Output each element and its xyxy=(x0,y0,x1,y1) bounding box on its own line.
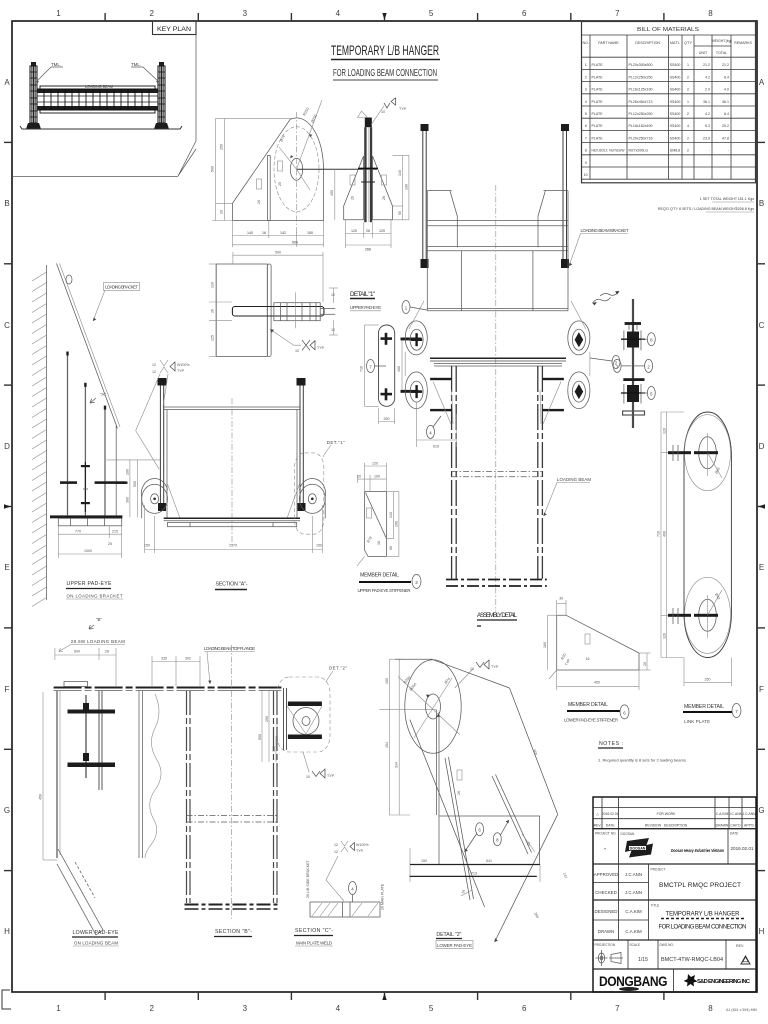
svg-text:26: 26 xyxy=(351,196,355,200)
svg-text:4: 4 xyxy=(336,1004,341,1013)
base line xyxy=(50,515,122,518)
DET.2 dashed box xyxy=(277,677,330,752)
svg-text:1000: 1000 xyxy=(84,549,92,553)
svg-text:DWG NO.: DWG NO. xyxy=(660,943,674,947)
svg-text:A: A xyxy=(4,78,10,87)
svg-text:36.1: 36.1 xyxy=(703,100,710,104)
svg-text:770: 770 xyxy=(75,530,81,534)
key plan loading beam truss xyxy=(37,86,158,113)
assembly: pad-eye shoulders xyxy=(405,301,590,376)
svg-text:MEMBER DETAIL: MEMBER DETAIL xyxy=(360,573,399,579)
zone ticks top/bottom xyxy=(105,13,664,1000)
dims 600 26 xyxy=(55,648,116,686)
svg-text:E: E xyxy=(4,563,9,572)
svg-text:716: 716 xyxy=(360,366,364,372)
lower pad-eye cross bars xyxy=(68,710,116,714)
svg-text:REMARKS: REMARKS xyxy=(734,41,752,45)
svg-text:SECTION "A"-: SECTION "A"- xyxy=(216,582,248,588)
svg-text:20: 20 xyxy=(357,475,361,479)
svg-text:120: 120 xyxy=(662,633,666,639)
svg-text:450: 450 xyxy=(594,681,600,685)
svg-text:TML.: TML. xyxy=(51,62,61,67)
member detail 3 top dims xyxy=(358,463,387,492)
link plate bolts xyxy=(668,451,691,454)
section A rods xyxy=(158,378,167,386)
dim 450 left xyxy=(42,692,44,860)
detail 1 link bar through slot xyxy=(232,307,324,317)
svg-text:25: 25 xyxy=(278,182,282,186)
svg-text:DOOSAN: DOOSAN xyxy=(621,832,636,836)
key plan label box xyxy=(153,21,197,35)
svg-text:Q'TY: Q'TY xyxy=(684,41,693,45)
detail 2 left dims xyxy=(379,659,436,815)
link plate bottom dim xyxy=(684,658,731,687)
svg-text:7: 7 xyxy=(585,136,587,140)
member detail 3 right dims xyxy=(386,492,399,557)
svg-text:DATE: DATE xyxy=(730,832,738,836)
assembly: dim 615 xyxy=(417,402,457,447)
svg-text:PL26x454x713: PL26x454x713 xyxy=(629,100,653,104)
svg-text:ASSEMBLY DETAIL: ASSEMBLY DETAIL xyxy=(477,612,518,619)
section A base xyxy=(164,517,300,519)
svg-text:10: 10 xyxy=(295,349,299,353)
svg-text:MEMBER DETAIL: MEMBER DETAIL xyxy=(568,702,608,708)
detail 1 bolt washer stack xyxy=(274,303,320,321)
zone letters right xyxy=(758,78,764,936)
svg-text:CHK'D: CHK'D xyxy=(730,824,741,828)
svg-text:1: 1 xyxy=(687,100,689,104)
upper pad-eye gusset plate detail xyxy=(233,118,324,221)
svg-text:NOTES :: NOTES : xyxy=(599,741,623,747)
dim 450 between views xyxy=(334,169,336,220)
gusset left dims xyxy=(212,118,294,220)
svg-text:DESCRIPTION: DESCRIPTION xyxy=(635,41,660,45)
svg-text:LOADING BEAM: LOADING BEAM xyxy=(557,477,591,482)
svg-text:500: 500 xyxy=(275,251,281,255)
gusset plate symbols xyxy=(278,161,283,171)
svg-text:26: 26 xyxy=(382,196,386,200)
svg-text:140: 140 xyxy=(398,170,402,176)
svg-text:M27x200LG: M27x200LG xyxy=(629,149,649,153)
svg-text:FOR LOADING BEAM CONNECTION: FOR LOADING BEAM CONNECTION xyxy=(659,925,747,931)
svg-text:4: 4 xyxy=(336,9,341,18)
detail 1 bolt tip xyxy=(320,307,335,309)
svg-text:ON LOADING BRACKET: ON LOADING BRACKET xyxy=(67,594,123,599)
svg-text:12: 12 xyxy=(152,370,156,374)
svg-text:450: 450 xyxy=(330,190,334,196)
svg-text:60: 60 xyxy=(389,546,393,550)
section arrow squiggle xyxy=(593,298,611,304)
section A left pad-eye xyxy=(142,484,168,513)
member detail 6 plate xyxy=(557,615,639,670)
svg-text:150: 150 xyxy=(316,544,322,548)
svg-text:PLATE: PLATE xyxy=(592,88,604,92)
zone numbers top xyxy=(56,9,713,18)
svg-text:28.6W LOADING BEAM: 28.6W LOADING BEAM xyxy=(71,639,125,644)
radius leaders xyxy=(279,100,322,190)
exploded pin: nut 1 xyxy=(627,332,639,348)
svg-text:21.2: 21.2 xyxy=(703,63,710,67)
svg-text:1208.8 Kgs: 1208.8 Kgs xyxy=(736,207,754,211)
section C plate xyxy=(310,902,380,917)
svg-text:120: 120 xyxy=(211,282,215,288)
svg-text:PLATE: PLATE xyxy=(592,63,604,67)
svg-text:UNIT: UNIT xyxy=(699,51,708,55)
zone numbers bottom xyxy=(56,1004,713,1013)
svg-text:PLATE: PLATE xyxy=(592,136,604,140)
svg-text:PLATE: PLATE xyxy=(592,112,604,116)
svg-text:26 L/B SIDE BRACKET: 26 L/B SIDE BRACKET xyxy=(306,859,310,898)
svg-text:UPPER PAD-EYE: UPPER PAD-EYE xyxy=(67,581,113,587)
assembly: hanger rods xyxy=(423,131,567,260)
svg-text:APPROVED: APPROVED xyxy=(594,872,618,877)
key plan TML labels xyxy=(36,62,159,83)
svg-text:SS400: SS400 xyxy=(670,63,681,67)
svg-text:8.4: 8.4 xyxy=(724,75,729,79)
svg-text:TOTAL: TOTAL xyxy=(716,51,727,55)
svg-text:PL20x300x500: PL20x300x500 xyxy=(629,63,653,67)
svg-text:36.1: 36.1 xyxy=(722,100,729,104)
key plan left tower xyxy=(26,62,41,129)
svg-text:E: E xyxy=(759,563,764,572)
svg-text:12: 12 xyxy=(334,850,338,854)
svg-text:150: 150 xyxy=(144,544,150,548)
assembly: lower-right pad-eye xyxy=(568,372,590,409)
svg-text:DET."1": DET."1" xyxy=(327,440,345,445)
svg-text:FOR LOADING BEAM CONNECTION: FOR LOADING BEAM CONNECTION xyxy=(333,68,437,79)
svg-text:PROJECT NO.: PROJECT NO. xyxy=(595,832,616,836)
svg-text:600: 600 xyxy=(74,650,80,654)
svg-text:26: 26 xyxy=(257,200,261,204)
gusset bottom dims xyxy=(233,221,324,248)
DET.2 dim stack xyxy=(262,691,276,762)
svg-text:WEIGHT(kg): WEIGHT(kg) xyxy=(711,39,732,43)
gusset centerlines xyxy=(296,112,298,236)
svg-text:290: 290 xyxy=(265,716,269,722)
svg-text:450: 450 xyxy=(39,794,43,800)
svg-text:REQ'D Q'TY 8 SETS / LOADING BE: REQ'D Q'TY 8 SETS / LOADING BEAM WEIGHT … xyxy=(658,207,739,211)
svg-text:16: 16 xyxy=(262,231,266,235)
svg-text:5: 5 xyxy=(429,1004,434,1013)
svg-text:335: 335 xyxy=(161,657,167,661)
svg-text:26 MAIN PLATE: 26 MAIN PLATE xyxy=(381,883,385,910)
svg-text:2: 2 xyxy=(687,88,689,92)
svg-text:PL16x125x190: PL16x125x190 xyxy=(629,88,653,92)
lower pad-eye verticals xyxy=(56,691,58,858)
svg-text:140: 140 xyxy=(389,512,393,518)
svg-text:SS400: SS400 xyxy=(670,136,681,140)
member detail 6 left dim xyxy=(547,615,549,670)
svg-text:8: 8 xyxy=(585,149,587,153)
svg-text:SM8.8: SM8.8 xyxy=(670,149,680,153)
gusset bolt circle (dashed) xyxy=(274,127,319,212)
svg-text:21.2: 21.2 xyxy=(722,63,729,67)
svg-text:8: 8 xyxy=(708,9,713,18)
svg-text:500: 500 xyxy=(258,734,262,740)
link plate elevation xyxy=(379,325,395,406)
assembly: rod nuts xyxy=(421,259,429,268)
svg-text:DRAWN: DRAWN xyxy=(716,824,729,828)
svg-text:10: 10 xyxy=(381,110,385,114)
detail 2 balloons xyxy=(476,823,484,836)
svg-text:C.A.KIM: C.A.KIM xyxy=(625,929,642,934)
svg-text:CHECKED: CHECKED xyxy=(595,890,616,895)
svg-text:4: 4 xyxy=(585,100,587,104)
svg-text:150: 150 xyxy=(307,231,313,235)
svg-text:25: 25 xyxy=(108,542,112,546)
svg-text:J.C.ANN: J.C.ANN xyxy=(742,812,756,816)
svg-text:716: 716 xyxy=(657,531,661,537)
svg-text:2016.02.01: 2016.02.01 xyxy=(731,846,754,851)
detail 1 left dims xyxy=(209,264,232,357)
svg-text:8.4: 8.4 xyxy=(724,112,729,116)
svg-text:2: 2 xyxy=(149,1004,154,1013)
svg-text:BMCTPL RMQC PROJECT: BMCTPL RMQC PROJECT xyxy=(659,882,741,889)
svg-text:A: A xyxy=(759,78,765,87)
hatched wall xyxy=(46,265,48,600)
svg-text:TML.: TML. xyxy=(131,62,141,67)
svg-text:140: 140 xyxy=(247,231,253,235)
svg-text:47.8: 47.8 xyxy=(722,136,729,140)
member detail 6 bottom dim xyxy=(557,670,639,690)
svg-text:SCALE: SCALE xyxy=(630,943,640,947)
svg-text:300: 300 xyxy=(125,497,129,503)
revision row xyxy=(594,812,756,828)
svg-text:DETAIL "2": DETAIL "2" xyxy=(436,932,461,938)
detail 1 weld leader xyxy=(270,329,301,345)
lower pad-eye gusset pair detail xyxy=(344,156,393,220)
BOM summary weights xyxy=(658,197,754,211)
svg-text:30: 30 xyxy=(559,597,563,601)
svg-text:1: 1 xyxy=(585,63,587,67)
svg-text:PLATE: PLATE xyxy=(592,100,604,104)
svg-text:250: 250 xyxy=(384,417,390,421)
svg-text:F: F xyxy=(759,685,764,694)
assembly: lower-left pad-eye xyxy=(405,372,427,409)
svg-text:B: B xyxy=(4,199,9,208)
svg-text:2370: 2370 xyxy=(229,544,237,548)
link plate dim 250 xyxy=(379,408,395,424)
section B bottom cap xyxy=(185,904,279,906)
svg-text:9: 9 xyxy=(585,161,587,165)
svg-text:C.A.KIM: C.A.KIM xyxy=(716,812,729,816)
key plan right tower xyxy=(154,62,169,129)
svg-text:LOADING BRACKET: LOADING BRACKET xyxy=(105,285,138,290)
svg-text:20: 20 xyxy=(220,210,224,214)
link plate bottom boss xyxy=(685,577,731,653)
svg-text:LOWER PAD-EYE: LOWER PAD-EYE xyxy=(73,930,120,936)
svg-text:F: F xyxy=(5,685,10,694)
svg-text:150: 150 xyxy=(385,678,389,684)
svg-text:2: 2 xyxy=(149,9,154,18)
svg-text:H: H xyxy=(4,927,10,936)
base plate xyxy=(58,518,121,526)
member detail 6 symbol xyxy=(585,634,590,644)
svg-text:150: 150 xyxy=(421,859,427,863)
svg-text:SS400: SS400 xyxy=(670,88,681,92)
svg-text:S&D ENGINEERING INC: S&D ENGINEERING INC xyxy=(697,979,751,985)
loading bracket diagonal xyxy=(57,264,118,429)
svg-text:1. Required quantity is 8 sets: 1. Required quantity is 8 sets for 2 loa… xyxy=(598,758,687,763)
detail 1 right micro dims xyxy=(329,288,338,335)
weld flag lower xyxy=(303,752,309,772)
link plate hole leaders xyxy=(708,453,723,478)
svg-text:120: 120 xyxy=(379,229,385,233)
svg-text:"B": "B" xyxy=(96,617,102,622)
svg-text:BILL OF MATERIALS: BILL OF MATERIALS xyxy=(637,27,700,33)
svg-text:26: 26 xyxy=(366,229,370,233)
svg-text:DONGBANG: DONGBANG xyxy=(599,974,667,989)
svg-text:50: 50 xyxy=(398,211,402,215)
svg-text:HEX.BOLT, NUT&S/W: HEX.BOLT, NUT&S/W xyxy=(592,149,626,153)
assembly: beam seat xyxy=(430,357,566,359)
svg-text:3: 3 xyxy=(585,88,587,92)
svg-text:TYP.: TYP. xyxy=(356,849,364,853)
svg-text:466: 466 xyxy=(662,531,666,537)
svg-text:J.C.ANN: J.C.ANN xyxy=(625,890,642,895)
svg-text:J.C.ANN: J.C.ANN xyxy=(729,812,743,816)
svg-text:4: 4 xyxy=(687,124,689,128)
svg-text:4.2: 4.2 xyxy=(705,75,710,79)
svg-text:SS400: SS400 xyxy=(670,75,681,79)
svg-text:12: 12 xyxy=(152,363,156,367)
svg-text:J.C.ANN: J.C.ANN xyxy=(625,872,642,877)
svg-text:7: 7 xyxy=(615,9,620,18)
svg-text:1 SET TOTAL WEIGHT :: 1 SET TOTAL WEIGHT : xyxy=(700,197,739,201)
svg-text:466: 466 xyxy=(397,366,401,372)
section A dims 200/500/300 xyxy=(106,460,160,517)
section C balloon 4 xyxy=(349,882,357,895)
exploded pin balloons xyxy=(647,333,655,346)
svg-text:25.2: 25.2 xyxy=(722,124,729,128)
upper pad-eye dims xyxy=(58,526,121,558)
svg-text:C: C xyxy=(759,321,765,330)
detail 2 slots xyxy=(445,757,532,900)
member detail 3 symbol xyxy=(367,508,372,518)
center bolt plates xyxy=(365,118,372,128)
upper pad-eye bracket bars xyxy=(68,353,106,516)
exploded pin: top washer xyxy=(625,322,641,325)
title block frame xyxy=(593,797,756,992)
svg-text:1/15: 1/15 xyxy=(638,957,648,963)
svg-text:W100%: W100% xyxy=(356,843,369,847)
svg-text:190: 190 xyxy=(395,521,399,527)
link plate dims xyxy=(661,412,684,658)
svg-text:6: 6 xyxy=(522,1004,527,1013)
svg-text:12: 12 xyxy=(331,328,335,332)
svg-text:PL16x162x490: PL16x162x490 xyxy=(629,124,653,128)
pair bottom dims xyxy=(345,220,391,248)
svg-text:MEMBER DETAIL: MEMBER DETAIL xyxy=(684,704,724,710)
svg-text:LOWER PAD-EYE: LOWER PAD-EYE xyxy=(437,943,472,948)
svg-text:3: 3 xyxy=(243,1004,248,1013)
svg-text:4.0: 4.0 xyxy=(724,88,729,92)
svg-text:MAIN PLATE WELD: MAIN PLATE WELD xyxy=(296,941,332,946)
svg-text:SECTION "C"-: SECTION "C"- xyxy=(295,928,333,934)
bracket cross ties xyxy=(95,481,126,484)
detail 2 bottom dims xyxy=(410,848,540,882)
exploded pin bolt: shaft xyxy=(632,299,634,428)
svg-text:120: 120 xyxy=(351,229,357,233)
assembly: loading beam sides xyxy=(452,366,543,579)
section B mid dashdot xyxy=(187,815,278,817)
key plan boundary xyxy=(12,35,196,177)
svg-text:120: 120 xyxy=(662,428,666,434)
svg-text:PL12x250x250: PL12x250x250 xyxy=(629,75,653,79)
svg-text:6: 6 xyxy=(522,9,527,18)
svg-text:PART NAME: PART NAME xyxy=(598,41,619,45)
top squiggle pointer xyxy=(600,292,619,296)
svg-text:160: 160 xyxy=(543,642,547,648)
bottom cut diagonals xyxy=(57,849,103,935)
svg-text:142: 142 xyxy=(280,231,286,235)
pair plate symbols xyxy=(350,175,355,185)
svg-text:26: 26 xyxy=(457,791,461,795)
lower pad-eye left cap plate xyxy=(64,682,88,687)
svg-text:541: 541 xyxy=(486,859,492,863)
svg-text:DET."2": DET."2" xyxy=(329,666,347,671)
svg-text:PROJECT: PROJECT xyxy=(651,868,666,872)
svg-text:100: 100 xyxy=(374,475,380,479)
svg-text:3: 3 xyxy=(243,9,248,18)
svg-text:2: 2 xyxy=(585,75,587,79)
signature rows xyxy=(594,872,642,934)
svg-text:"A": "A" xyxy=(100,392,106,397)
svg-text:LOADING BEAM BRACKET: LOADING BEAM BRACKET xyxy=(581,228,629,233)
svg-text:TEMPORARY L/B HANGER: TEMPORARY L/B HANGER xyxy=(666,912,741,918)
svg-text:G: G xyxy=(4,806,10,815)
svg-text:2.0: 2.0 xyxy=(705,88,710,92)
svg-text:DESIGNED: DESIGNED xyxy=(595,909,618,914)
svg-text:△: △ xyxy=(596,812,599,816)
svg-text:C: C xyxy=(4,321,10,330)
svg-text:125: 125 xyxy=(211,335,215,341)
svg-text:334: 334 xyxy=(395,762,399,768)
svg-text:SS400: SS400 xyxy=(670,112,681,116)
link plate member detail 7 xyxy=(684,412,731,658)
svg-text:615: 615 xyxy=(433,445,439,449)
assembly: upper-right pad-eye xyxy=(568,321,590,355)
svg-text:DRAWN: DRAWN xyxy=(598,929,614,934)
svg-text:PL12x250x250: PL12x250x250 xyxy=(629,112,653,116)
detail 1 gusset plate edge xyxy=(267,264,271,357)
svg-text:PLATE: PLATE xyxy=(592,75,604,79)
svg-text:DATE: DATE xyxy=(606,824,616,828)
DET.1 dashed box xyxy=(295,453,324,534)
exploded pin: washer 2 xyxy=(623,378,644,381)
svg-text:H: H xyxy=(759,927,765,936)
svg-text:2016.02.01: 2016.02.01 xyxy=(602,812,619,816)
svg-text:6: 6 xyxy=(585,124,587,128)
assembly: upper-left pad-eye xyxy=(405,321,427,355)
svg-text:TYP.: TYP. xyxy=(491,665,499,669)
detail 2 pad-eye boss xyxy=(395,658,432,660)
svg-text:LOADING BEAM TOP FLANGE: LOADING BEAM TOP FLANGE xyxy=(204,646,255,651)
svg-text:1: 1 xyxy=(687,63,689,67)
svg-text:26: 26 xyxy=(211,309,215,313)
svg-text:2: 2 xyxy=(687,149,689,153)
member detail 6 top dim xyxy=(557,600,566,615)
assembly: beam mid dashdot xyxy=(452,471,543,473)
svg-text:TYP.: TYP. xyxy=(317,346,325,350)
svg-text:FOR WORK: FOR WORK xyxy=(657,812,676,816)
svg-text:W100%: W100% xyxy=(177,363,190,367)
svg-text:LINK PLATE: LINK PLATE xyxy=(684,719,710,724)
svg-text:TYP.: TYP. xyxy=(177,369,185,373)
bracket right edge pair xyxy=(139,691,143,858)
svg-text:A1 (841 x 594) MM: A1 (841 x 594) MM xyxy=(726,1008,757,1012)
svg-text:23.9: 23.9 xyxy=(703,136,710,140)
